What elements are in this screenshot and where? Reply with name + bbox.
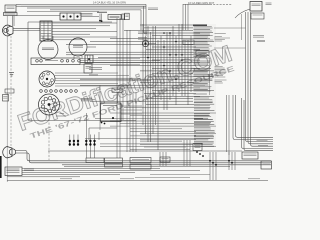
label mid trunk [253,35,264,37]
horn H1 [3,25,14,36]
wire bundle drops D [228,152,230,170]
wire from B1 right [16,5,21,7]
harness verticals center [116,18,118,158]
wire S2 feed vertical [117,92,119,103]
horn relay K3 [85,55,93,63]
fuse link F1 bar [122,14,125,20]
connector C1 three-cell [60,13,81,20]
wire horn to firewall B [13,30,40,32]
wire top bus 1 [21,3,146,5]
wire bundle drops C [209,152,211,180]
connector small field A [183,40,194,45]
wires from S3 [16,151,59,161]
labels near ignition block [24,168,34,170]
terminal circles row 1 [36,60,39,63]
wire bundle drops B [183,140,185,166]
voltage regulator VR1 [38,40,58,60]
connector C10 left edge [3,95,9,102]
wire mid cross run [48,150,242,152]
junction block B1 [5,5,16,12]
connector C6 top right [250,2,262,12]
flasher relay K4 [84,64,92,73]
label header right column [193,24,207,26]
wires from labels to trunk [214,27,246,29]
connector small field B [196,51,209,56]
ignition label block [5,167,22,176]
connector C15 on bundle [160,157,170,162]
wires bottom partial runs [150,174,210,176]
wire tail harness down pair [226,95,228,152]
connector C3 [125,13,130,20]
wire bottom run 5 [7,176,80,178]
wire bottom run 2 [22,170,200,172]
wire T1 leads [73,55,75,59]
wire top right horizontal [183,3,210,5]
headlight switch S1 [39,71,55,87]
wires splice stubs to connector [85,146,87,158]
junction dots under S2 [101,122,103,124]
wires fan from C4 [52,22,117,24]
labels right tail wires [257,139,268,141]
turn signal switch S2 [101,103,122,122]
wire bottom run 4 [22,174,120,176]
ignition switch S3 [3,147,16,159]
labels right of distributor [81,97,92,99]
labels C606 row [89,67,102,69]
labels on bottom run [60,178,72,180]
wire accessory dashed vertical [10,36,12,146]
connector C9 labels [130,158,151,163]
wire trunk right triple [246,12,274,142]
connector C7 top of trunk [251,13,264,19]
wire bottom run 1 [22,168,160,170]
ground G1 [9,73,14,77]
wire tail harness pair B [242,98,274,149]
svg-text:14 GA BLK-YEL 16 GA GRN: 14 GA BLK-YEL 16 GA GRN [93,0,126,4]
wire bottom run 3 [22,172,135,174]
cluster connector C5 band [31,58,80,65]
distributor D1 [39,94,60,115]
wire bundle top right verticals [182,4,184,30]
labels far top right corner [266,2,272,4]
wire horn to firewall A [13,27,40,29]
wire bottom long run [7,180,268,182]
wires bottom field extras [140,139,196,141]
scan edge artifact [0,156,2,178]
wire lower field runs [110,112,216,114]
harness verticals lower center [126,30,128,152]
wire extra vertical right [241,14,243,40]
wire top bus 3 [27,7,146,9]
connector C14 mid bottom [193,144,202,151]
connector C11 left [5,89,14,93]
wire top bus 2 [21,5,146,7]
wire bus elbow risers [140,10,142,30]
connector C13 bottom right corner [261,161,272,169]
connector C12 bottom right [242,152,258,159]
heater box outline [89,127,117,129]
junction dots field [163,65,165,67]
wires from C5 right [80,58,140,60]
ignition coil T1 [69,38,87,56]
terminal bar B2 [4,13,18,16]
watermark FORDification.COM [14,40,237,143]
wire bus to C1 [17,15,60,17]
dash outline top [28,21,112,23]
wire left of S2 [99,85,101,130]
junction dots mid cluster [196,151,198,153]
label above S2 [112,88,122,92]
wire K2 feeds [99,14,101,21]
dash outline left [27,22,29,120]
label starter relay [97,11,107,13]
horn H2 [142,40,148,46]
wire left border vertical [6,16,8,182]
splice junction dot rows [69,140,71,142]
bulkhead connector C4 ladder [40,21,52,41]
wire field vertical runs [142,24,144,125]
wire C6 curve [235,9,250,18]
wire name labels second column [215,33,226,35]
dash outline bottom [28,120,136,122]
starter relay K2 [108,15,121,20]
wire distributor feed lines [56,115,66,117]
wire name labels right column lower [194,96,214,98]
labels left of field [138,31,147,33]
wire VR1 top terminals [42,36,44,40]
wire top bus 4 [50,9,141,11]
labels below elbows [148,7,158,9]
label right of C1 [80,12,93,14]
terminal circles row 2 [40,90,43,93]
wire bundle drops A [159,152,161,166]
connector C8 labels [86,158,104,163]
wire field horizontal runs [140,24,205,26]
wire main bottom bundle [58,160,271,162]
junction dots bottom [209,160,211,162]
scan blur overlay dense field [140,24,216,146]
wire tail harness pair A [233,95,273,140]
wires S2 leads [121,105,142,107]
wires from S1 fan [55,72,118,74]
wire name labels right column upper [194,26,212,28]
paper background [0,0,273,185]
wire pair down to horn [12,16,14,27]
wire distributor dashed lead [48,115,50,160]
wire label column vertical [209,58,211,95]
wires splice risers [69,135,71,141]
